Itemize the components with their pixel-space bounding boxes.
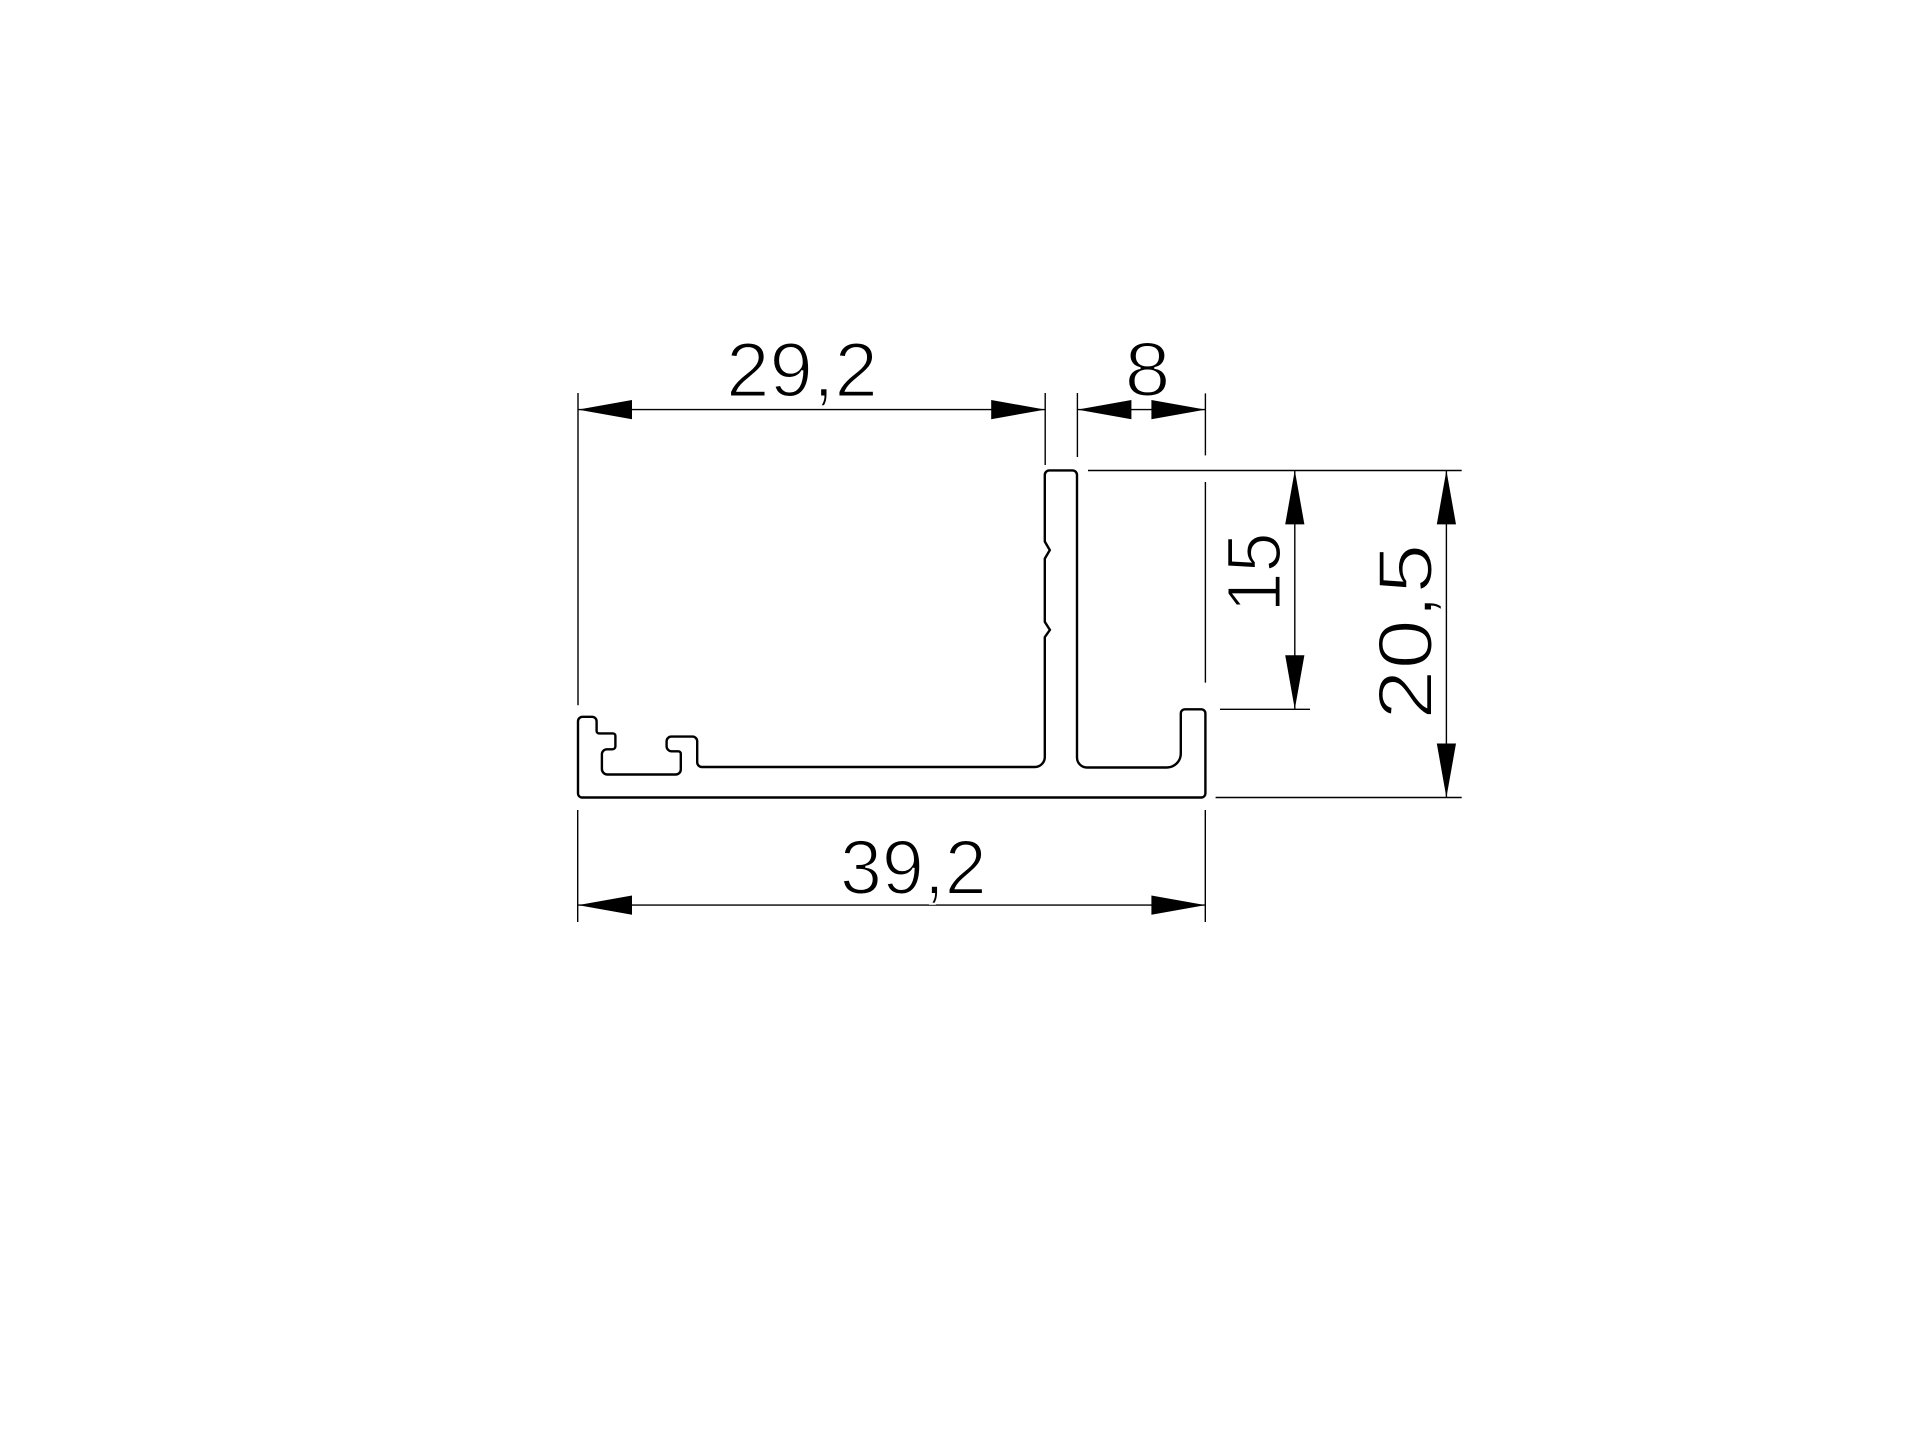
ext line 8 right lower [1204, 482, 1206, 683]
arrow 29,2 left [578, 400, 632, 419]
arrow 39,2 left [578, 896, 632, 915]
arrowheads [578, 400, 1456, 915]
ext line 29,2 left [577, 393, 579, 705]
ext line 39,2 right [1204, 810, 1206, 922]
dim line 39,2 [578, 904, 1205, 906]
arrow 20,5 bottom [1437, 744, 1456, 798]
svg-text:15: 15 [1212, 532, 1298, 612]
ext line 15 bottom [1220, 708, 1310, 710]
dim line 20,5 [1445, 470, 1447, 797]
arrow 20,5 top [1437, 470, 1456, 524]
arrow 15 top [1285, 470, 1304, 524]
svg-text:8: 8 [1125, 327, 1171, 413]
dim line 8 [1077, 409, 1205, 411]
arrow 15 bottom [1285, 655, 1304, 709]
arrow 8 right [1151, 400, 1205, 419]
ext line 8 left [1076, 393, 1078, 457]
ext line 39,2 left [577, 810, 579, 922]
svg-text:29,2: 29,2 [726, 328, 878, 414]
dimension texts [726, 327, 1449, 911]
profile outline: aluminium extrusion cross-section [578, 470, 1205, 797]
ext line top shared [1088, 470, 1462, 472]
ext line bottom shared [1216, 797, 1462, 799]
arrow 8 left [1077, 400, 1131, 419]
thin dimension and extension lines [578, 393, 1462, 922]
ext line 8 right upper [1204, 393, 1206, 455]
dim line 15 [1294, 470, 1296, 709]
svg-text:20,5: 20,5 [1363, 544, 1449, 720]
dim line 29,2 [578, 409, 1045, 411]
svg-text:39,2: 39,2 [840, 825, 987, 911]
arrow 29,2 right [991, 400, 1045, 419]
ext line 29,2 right [1044, 393, 1046, 465]
arrow 39,2 right [1151, 896, 1205, 915]
